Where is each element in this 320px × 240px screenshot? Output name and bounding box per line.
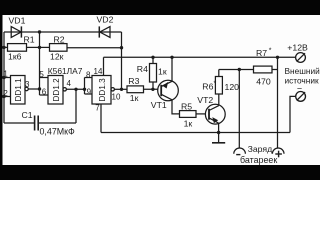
junction: R4 top on +12V rail [151,56,154,59]
svg-text:+12В: +12В [287,42,308,52]
svg-text:R4: R4 [137,64,148,74]
letterbox top bar [0,0,320,15]
rail to R7 [219,69,254,71]
svg-text:−: − [297,84,302,94]
transistor VT1 (PNP) [158,80,179,101]
diode VD2 [100,27,110,38]
junction: R7 right on +12V rail [276,56,279,59]
resistor R5 [180,111,197,118]
junction: VD1 cathode / node B top [38,30,41,33]
junction: C1 to DD1.2 output [74,88,77,91]
svg-text:R6: R6 [202,81,213,91]
svg-text:5: 5 [39,70,44,79]
pin 1 wire [4,77,11,79]
svg-text:10: 10 [112,92,121,101]
ground rail [101,132,290,134]
wire: C1 up to pin4 node [75,89,77,123]
svg-text:R2: R2 [54,34,65,44]
svg-text:6: 6 [42,88,47,97]
svg-text:R3: R3 [128,76,139,86]
pin 14 wire [103,57,105,75]
junction: DD1.1 pin 1 / node A [2,76,5,79]
svg-text:*: * [269,47,272,54]
+12V rail [104,56,296,58]
DD1.2 output bubble pin4 [63,88,66,91]
junction: R4 bottom on VT1 base wire [151,88,154,91]
svg-text:*: * [214,80,217,87]
pin 6 wire [40,94,49,96]
VT2 emitter arrow (NPN, pointing out) [212,117,218,123]
wire: R7 right up to rail and down to + clip [277,57,279,148]
wire: battery minus drop [238,70,240,148]
svg-text:R5: R5 [181,101,192,111]
resistor R7 [254,66,273,73]
junction: R2 right / node C [120,46,123,49]
VT1 emitter arrow (PNP, pointing into base) [162,82,168,89]
capacitor C1 [4,122,34,124]
ground symbol [218,133,220,143]
junction: node C to pin 10 wire [120,88,123,91]
svg-text:DD1.1: DD1.1 [14,78,23,102]
DD1.3 output bubble pin10 [111,88,114,91]
svg-text:3: 3 [25,80,30,89]
svg-text:VD2: VD2 [97,15,114,25]
letterbox bottom bar [0,165,320,180]
transistor VT2 (NPN) [205,104,225,124]
junction: DD1.1 output to DD1.2 inputs [38,87,41,90]
pin 7 ground wire [100,104,102,133]
svg-text:120: 120 [225,82,240,92]
resistor R4 [150,64,157,83]
diode VD1 [11,27,21,38]
svg-text:батареек: батареек [240,155,277,165]
svg-text:VT2: VT2 [197,95,213,105]
junction: DD1.1 pin 2 / node A [2,95,5,98]
IC DD1.3 box [92,76,111,105]
wire: vertical node B (R1/R2 junction down to DD1.2 inputs) [39,32,41,95]
svg-text:1к: 1к [158,66,167,76]
svg-text:1к: 1к [130,93,139,103]
svg-text:C1: C1 [22,110,33,120]
junction: battery minus tap on R6-R7 rail [238,68,241,71]
svg-text:VT1: VT1 [151,100,167,110]
IC DD1.2 box [48,76,63,105]
svg-text:Заряд: Заряд [248,144,273,154]
pin 2 wire [4,96,11,98]
wire: DD1.3 input tie (pins 8,9) [84,78,86,95]
wire: vertical node C (VD2/R2 right down to pin10) [121,32,123,89]
resistor R1 [8,44,27,52]
wire: ground rail up to external source minus [290,96,296,132]
svg-text:1к6: 1к6 [8,51,22,61]
svg-text:4: 4 [67,79,72,88]
terminal +12V [296,53,306,63]
svg-text:9: 9 [87,87,92,96]
junction: VT1 emitter on +12V rail [170,56,173,59]
svg-text:DD1.3: DD1.3 [98,78,107,102]
svg-text:1: 1 [3,69,8,78]
IC DD1.1 box [11,76,26,105]
svg-text:0,47МкФ: 0,47МкФ [40,127,76,137]
svg-text:470: 470 [256,77,271,87]
DD1.1 output bubble pin3 [25,87,28,90]
junction: VT2 emitter on ground rail [217,131,220,134]
wire: node A left vertical [3,32,5,123]
svg-text:К561ЛА7: К561ЛА7 [48,66,83,76]
svg-text:12к: 12к [50,52,64,62]
letterbox left bar [0,0,3,180]
svg-text:VD1: VD1 [9,16,26,26]
svg-text:8: 8 [86,70,91,79]
pin 5 wire [40,77,49,79]
svg-text:DD1.2: DD1.2 [52,78,61,102]
resistor R6 [215,77,222,95]
battery clip minus [234,148,246,154]
svg-text:1к: 1к [184,118,193,128]
svg-text:7: 7 [95,104,100,113]
resistor R2 [50,44,68,52]
svg-text:R1: R1 [24,35,35,45]
battery clip plus [272,148,284,154]
svg-text:14: 14 [94,67,103,76]
resistor R3 [127,86,144,93]
terminal external source minus [296,92,306,102]
junction: R1-R2 / node B [38,46,41,49]
svg-text:2: 2 [3,89,8,98]
svg-text:R7: R7 [256,48,267,58]
junction: R1 left / node A [2,46,5,49]
wire: top wire VD1-VD2 row [4,31,122,33]
junction: DD1.2 output to DD1.3 inputs [83,88,86,91]
